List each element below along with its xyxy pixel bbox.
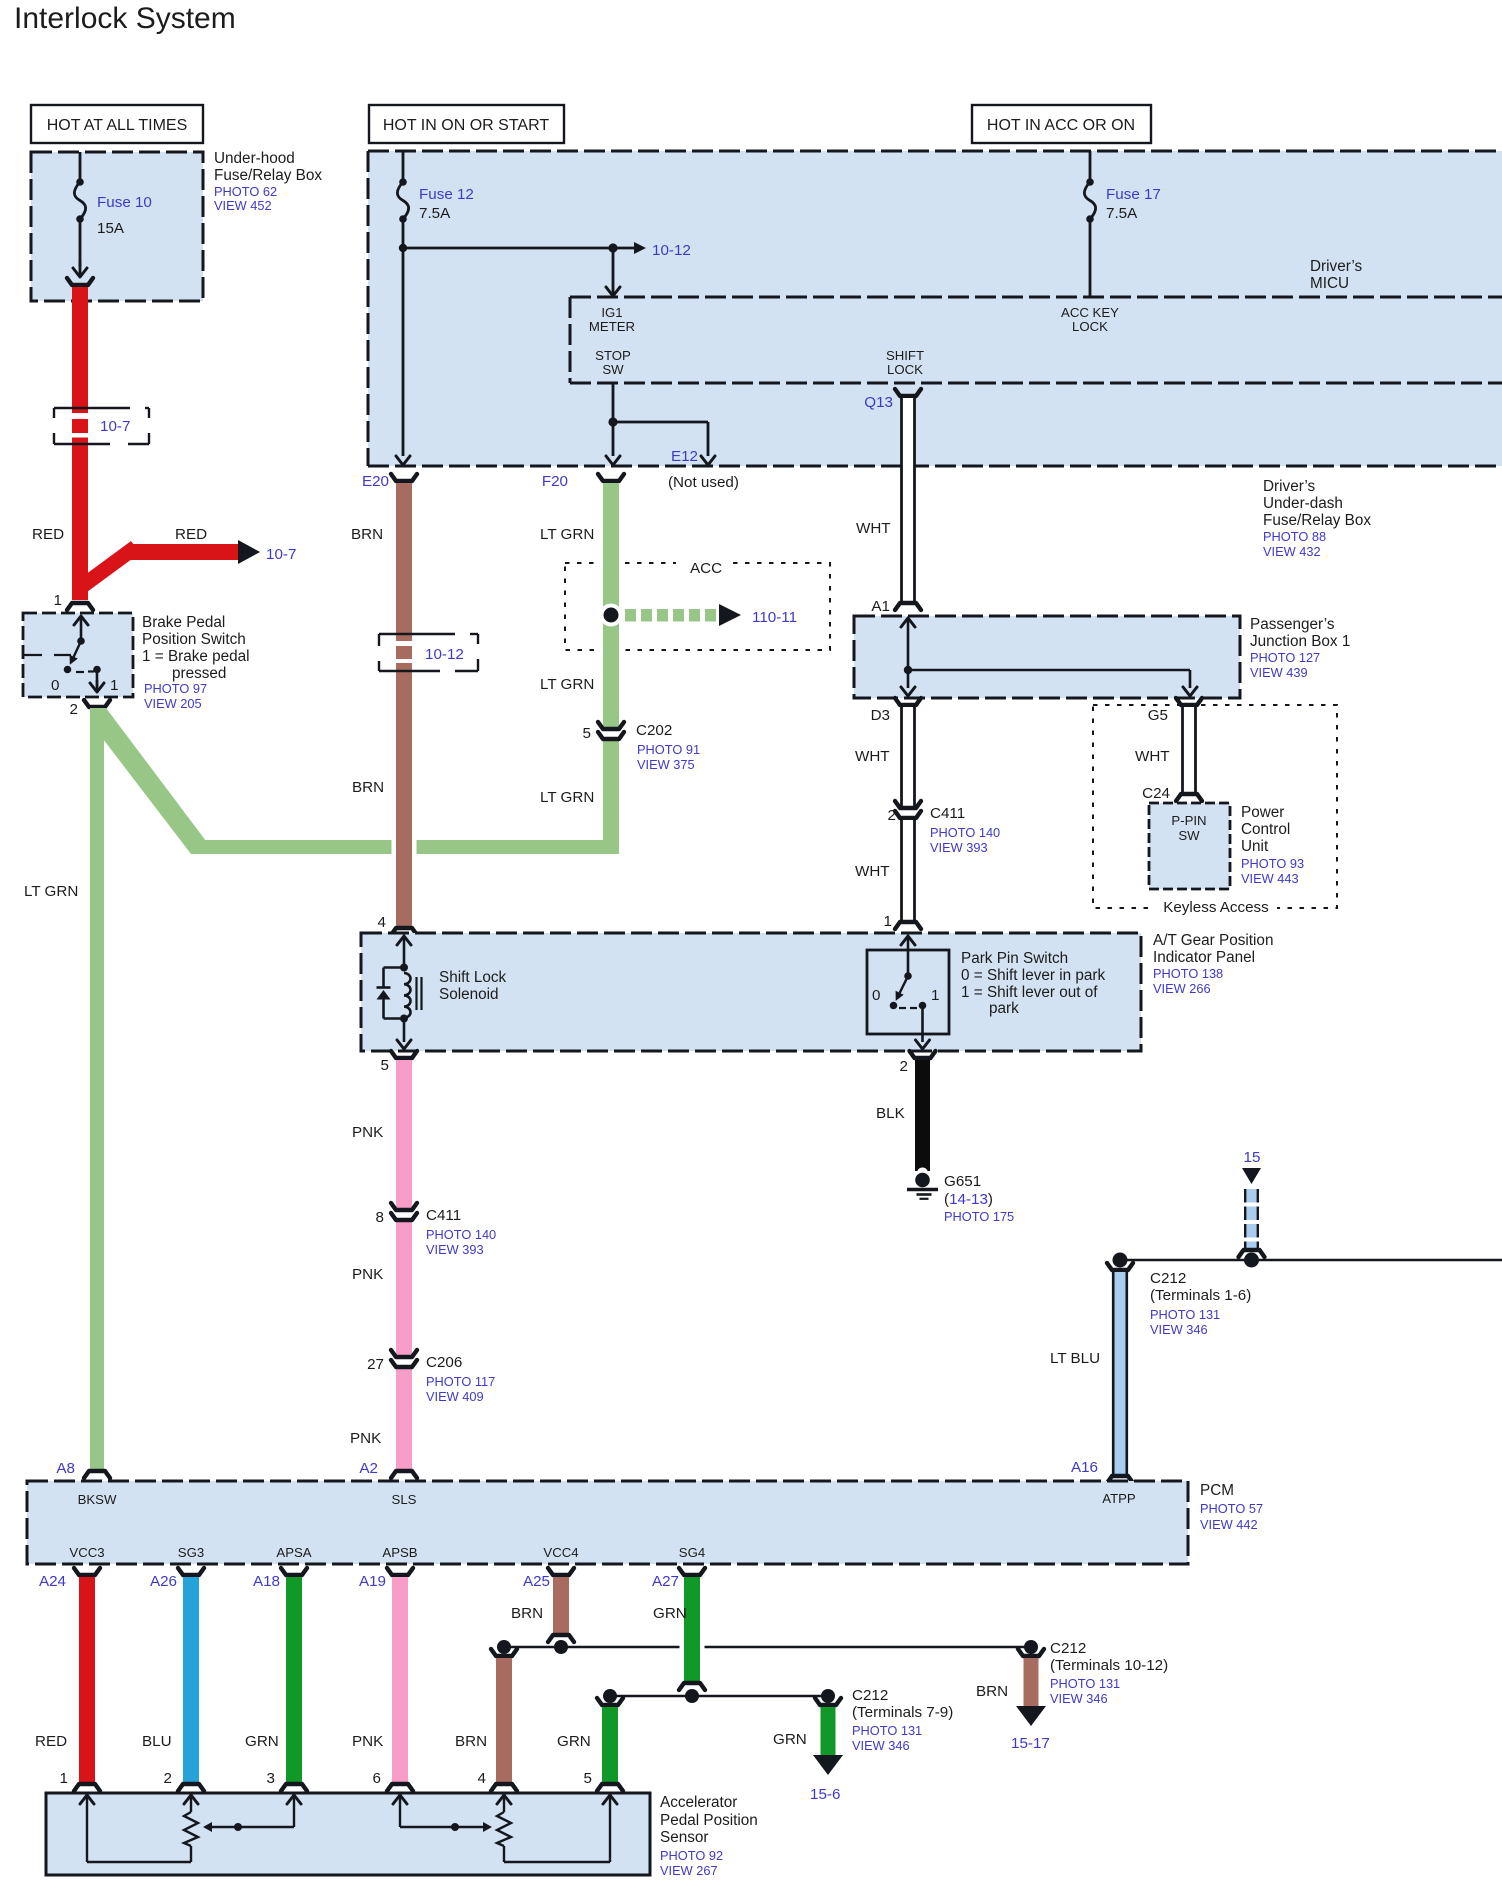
svg-text:HOT IN ON OR START: HOT IN ON OR START: [383, 117, 549, 134]
svg-text:1: 1: [931, 987, 939, 1004]
svg-text:BLK: BLK: [876, 1105, 905, 1122]
svg-text:PHOTO 138: PHOTO 138: [1153, 966, 1223, 981]
svg-text:Fuse/Relay Box: Fuse/Relay Box: [214, 167, 322, 184]
svg-text:VIEW 375: VIEW 375: [637, 757, 695, 772]
wiper APP sensor 2: [400, 1826, 487, 1828]
connector A16: [1107, 1476, 1133, 1483]
svg-text:3: 3: [267, 1770, 275, 1787]
connector C206 pin 27: [391, 1350, 417, 1357]
svg-text:METER: METER: [589, 319, 635, 334]
svg-text:PNK: PNK: [350, 1430, 381, 1447]
svg-text:LT GRN: LT GRN: [540, 789, 594, 806]
connector E20: [391, 474, 417, 481]
svg-text:F20: F20: [542, 473, 568, 490]
svg-text:10-7: 10-7: [100, 418, 130, 435]
svg-text:RED: RED: [175, 526, 207, 543]
svg-text:A26: A26: [150, 1573, 177, 1590]
svg-text:RED: RED: [35, 1733, 67, 1750]
svg-text:A/T Gear Position: A/T Gear Position: [1153, 932, 1273, 949]
svg-text:SW: SW: [1178, 828, 1200, 843]
label box HOT IN ACC OR ON: [972, 105, 1151, 143]
svg-text:VIEW 393: VIEW 393: [930, 840, 988, 855]
svg-text:Keyless Access: Keyless Access: [1163, 899, 1269, 916]
svg-text:E12: E12: [671, 448, 698, 465]
wire GRN to sensor pin 5: [602, 1707, 618, 1782]
svg-text:BRN: BRN: [511, 1605, 543, 1622]
page break marker 10-12: [379, 633, 455, 635]
svg-text:PHOTO 88: PHOTO 88: [1263, 529, 1326, 544]
svg-text:LT GRN: LT GRN: [24, 883, 78, 900]
svg-text:VIEW 346: VIEW 346: [1050, 1691, 1108, 1706]
svg-text:BRN: BRN: [455, 1733, 487, 1750]
svg-text:Driver’s: Driver’s: [1310, 258, 1362, 275]
svg-text:Power: Power: [1241, 804, 1284, 821]
wire LT GRN diagonal from pin 2: [90, 708, 206, 854]
box Passenger's Junction Box 1: [854, 616, 1240, 698]
svg-text:VIEW 452: VIEW 452: [214, 198, 272, 213]
svg-text:Solenoid: Solenoid: [439, 986, 499, 1003]
solenoid Shift Lock Solenoid: [397, 936, 411, 945]
wire branch to E12: [613, 421, 708, 424]
svg-text:VIEW 443: VIEW 443: [1241, 871, 1299, 886]
connector C212 10-12 top: [1018, 1649, 1044, 1656]
svg-text:VIEW 346: VIEW 346: [1150, 1322, 1208, 1337]
connector A26: [178, 1568, 204, 1575]
svg-text:VIEW 267: VIEW 267: [660, 1863, 718, 1878]
node SG4 line left: [603, 1689, 617, 1703]
svg-text:ACC: ACC: [690, 560, 722, 577]
svg-text:BRN: BRN: [976, 1683, 1008, 1700]
svg-text:pressed: pressed: [172, 665, 226, 682]
node SG4 line mid: [685, 1689, 699, 1703]
connector pin 4 solenoid: [391, 928, 417, 935]
connector pin 5 top: [597, 1698, 623, 1705]
svg-text:(Terminals 7-9): (Terminals 7-9): [852, 1704, 953, 1721]
svg-text:LT BLU: LT BLU: [1050, 1350, 1100, 1367]
box ACC branch: [565, 563, 830, 650]
wire WHT Q13 to A1: [901, 398, 916, 601]
svg-text:LOCK: LOCK: [1072, 319, 1108, 334]
wire C212 terminals 1-6 line: [1120, 1259, 1502, 1262]
svg-text:C212: C212: [852, 1687, 888, 1704]
label box HOT AT ALL TIMES: [31, 105, 203, 143]
svg-text:PNK: PNK: [352, 1266, 383, 1283]
svg-text:VIEW 205: VIEW 205: [144, 696, 202, 711]
wire PNK PCM APSB to sensor pin 6: [392, 1577, 408, 1782]
svg-text:PHOTO 92: PHOTO 92: [660, 1848, 723, 1863]
page break marker 10-7: [54, 407, 130, 409]
fuse Fuse 17 7.5A: [1089, 151, 1092, 182]
wire WHT G5 to C24: [1182, 707, 1197, 792]
svg-text:PHOTO 97: PHOTO 97: [144, 681, 207, 696]
svg-text:WHT: WHT: [855, 863, 890, 880]
svg-text:HOT AT ALL TIMES: HOT AT ALL TIMES: [47, 117, 188, 134]
svg-text:WHT: WHT: [1135, 748, 1170, 765]
box Driver's Under-dash Fuse/Relay Box: [368, 151, 1502, 466]
connector C24: [1176, 794, 1202, 801]
svg-text:STOP: STOP: [595, 348, 631, 363]
svg-text:A16: A16: [1071, 1459, 1098, 1476]
resistor APP sensor 1: [184, 1812, 198, 1846]
svg-text:Fuse/Relay Box: Fuse/Relay Box: [1263, 512, 1371, 529]
svg-text:PNK: PNK: [352, 1124, 383, 1141]
connector C212 terminal line top: [1239, 1250, 1265, 1257]
svg-text:PHOTO 140: PHOTO 140: [426, 1227, 496, 1242]
svg-text:BRN: BRN: [352, 779, 384, 796]
svg-text:C212: C212: [1150, 1270, 1186, 1287]
svg-text:D3: D3: [871, 707, 890, 724]
svg-text:BKSW: BKSW: [78, 1492, 117, 1507]
fuse Fuse 10 15A: [79, 152, 82, 182]
wire PNK solenoid to PCM SLS: [396, 1060, 412, 1209]
svg-text:Brake Pedal: Brake Pedal: [142, 614, 225, 631]
svg-text:BLU: BLU: [142, 1733, 172, 1750]
svg-text:PHOTO 140: PHOTO 140: [930, 825, 1000, 840]
svg-text:GRN: GRN: [773, 1731, 807, 1748]
svg-text:PHOTO 91: PHOTO 91: [637, 742, 700, 757]
svg-text:0: 0: [872, 987, 880, 1004]
svg-text:PHOTO 62: PHOTO 62: [214, 184, 277, 199]
svg-text:ACC KEY: ACC KEY: [1061, 305, 1119, 320]
svg-text:Q13: Q13: [864, 394, 893, 411]
svg-text:LT GRN: LT GRN: [540, 676, 594, 693]
connector sensor pin 6: [387, 1784, 413, 1791]
wire LT BLU C212 to PCM ATPP: [1114, 1272, 1126, 1474]
svg-text:Pedal Position: Pedal Position: [660, 1812, 758, 1829]
svg-text:PHOTO 57: PHOTO 57: [1200, 1501, 1263, 1516]
svg-text:Accelerator: Accelerator: [660, 1794, 737, 1811]
box Driver's MICU: [570, 296, 1502, 299]
svg-text:Sensor: Sensor: [660, 1829, 708, 1846]
wire LT GRN brake switch to PCM BKSW: [90, 709, 104, 1469]
wire RED fuse10 to brake switch: [72, 287, 88, 413]
svg-text:PHOTO 127: PHOTO 127: [1250, 650, 1320, 665]
connector A24: [74, 1568, 100, 1575]
svg-text:G5: G5: [1148, 707, 1168, 724]
connector A25 bottom: [548, 1635, 574, 1642]
switch brake pedal contacts: [74, 616, 88, 625]
wire junction box internal: [901, 618, 915, 627]
svg-text:1: 1: [54, 592, 62, 609]
svg-text:G651: G651: [944, 1173, 981, 1190]
wire branch to 10-12: [403, 247, 634, 250]
svg-text:GRN: GRN: [245, 1733, 279, 1750]
svg-text:Junction Box 1: Junction Box 1: [1250, 633, 1350, 650]
connector A19: [387, 1568, 413, 1575]
svg-text:RED: RED: [32, 526, 64, 543]
node C212 line right: [1244, 1253, 1259, 1268]
connector Q13: [895, 389, 921, 396]
node ACC tap junction: [600, 604, 623, 627]
wire dashed LT GRN ACC branch: [625, 609, 636, 622]
connector C202 pin 5: [598, 722, 624, 729]
wire WHT D3 to C411: [901, 707, 916, 806]
wire RED branch to 10-7: [74, 541, 140, 592]
wire BRN to sensor pin 4: [496, 1658, 512, 1782]
connector G5: [1176, 698, 1202, 705]
svg-text:C212: C212: [1050, 1640, 1086, 1657]
svg-text:PCM: PCM: [1200, 1482, 1234, 1499]
wire GRN PCM SG4 stub: [504, 1646, 1031, 1649]
label box HOT IN ON OR START: [369, 105, 564, 143]
svg-text:(Not used): (Not used): [668, 474, 739, 491]
svg-text:HOT IN ACC OR ON: HOT IN ACC OR ON: [987, 117, 1135, 134]
box Brake Pedal Position Switch: [23, 613, 133, 697]
node junction box split: [904, 666, 912, 674]
svg-text:VIEW 393: VIEW 393: [426, 1242, 484, 1257]
svg-text:LT GRN: LT GRN: [540, 526, 594, 543]
connector sensor pin 2: [178, 1784, 204, 1791]
ground G651: [917, 1168, 928, 1179]
wire BLU PCM SG3 to sensor pin 2: [183, 1577, 199, 1782]
wire to IG1 METER pin: [612, 248, 615, 287]
svg-text:15-6: 15-6: [810, 1786, 840, 1803]
svg-text:4: 4: [478, 1770, 486, 1787]
connector C411 pin 2: [895, 801, 921, 808]
svg-text:VIEW 432: VIEW 432: [1263, 544, 1321, 559]
svg-text:A27: A27: [652, 1573, 679, 1590]
svg-text:SW: SW: [602, 362, 624, 377]
svg-text:WHT: WHT: [855, 748, 890, 765]
svg-text:A19: A19: [359, 1573, 386, 1590]
svg-text:C202: C202: [636, 722, 672, 739]
box A/T Gear Position Indicator Panel: [361, 933, 1141, 1051]
wire LT GRN F20 to shift lock solenoid: [599, 560, 624, 655]
svg-text:6: 6: [373, 1770, 381, 1787]
svg-text:15-17: 15-17: [1011, 1735, 1050, 1752]
box P-PIN SW: [1149, 803, 1230, 889]
svg-text:0 = Shift lever in park: 0 = Shift lever in park: [961, 967, 1105, 984]
wire dashed LT BLU from 15: [1246, 1189, 1257, 1203]
arrow to page 110-11: [719, 604, 741, 626]
connector sensor pin 5: [597, 1784, 623, 1791]
wire SG4 line: [610, 1695, 828, 1698]
fuse Fuse 12 7.5A: [402, 151, 405, 182]
svg-text:Under-hood: Under-hood: [214, 150, 295, 167]
svg-text:(14-13): (14-13): [944, 1191, 993, 1208]
svg-text:PHOTO 131: PHOTO 131: [1050, 1676, 1120, 1691]
svg-text:(Terminals 10-12): (Terminals 10-12): [1050, 1657, 1168, 1674]
svg-text:0: 0: [51, 677, 59, 694]
svg-text:IG1: IG1: [601, 305, 622, 320]
svg-text:5: 5: [381, 1057, 389, 1074]
svg-text:C411: C411: [426, 1207, 461, 1224]
svg-text:Fuse 17: Fuse 17: [1106, 186, 1161, 203]
connector A1: [895, 603, 921, 610]
svg-text:PHOTO 131: PHOTO 131: [1150, 1307, 1220, 1322]
svg-text:27: 27: [367, 1356, 384, 1373]
svg-text:2: 2: [70, 701, 78, 718]
svg-text:MICU: MICU: [1310, 275, 1349, 292]
resistor APP sensor 2: [497, 1812, 511, 1846]
svg-text:4: 4: [378, 914, 386, 931]
switch Park Pin Switch: [867, 950, 949, 1034]
arrow RED to page 10-7: [238, 540, 260, 564]
svg-text:5: 5: [583, 725, 591, 742]
svg-text:Position Switch: Position Switch: [142, 631, 246, 648]
svg-text:Shift Lock: Shift Lock: [439, 969, 507, 986]
connector top of LT BLU wire: [1107, 1263, 1133, 1270]
connector sensor pin 3: [281, 1784, 307, 1791]
svg-text:SG3: SG3: [178, 1545, 204, 1560]
node SG4 line right: [821, 1689, 835, 1703]
wire BRN PCM VCC4 stub: [553, 1577, 569, 1633]
svg-text:PHOTO 175: PHOTO 175: [944, 1209, 1014, 1224]
svg-text:VIEW 442: VIEW 442: [1200, 1517, 1258, 1532]
connector top of RED wire: [67, 278, 93, 285]
svg-text:7.5A: 7.5A: [1106, 205, 1138, 222]
node fuse12 branch junction: [399, 244, 407, 252]
connector F20: [598, 474, 624, 481]
arrow to page 10-12: [634, 242, 646, 254]
svg-text:Interlock System: Interlock System: [14, 2, 236, 35]
box Under-hood Fuse/Relay Box: [31, 152, 203, 301]
svg-text:A2: A2: [359, 1460, 378, 1477]
svg-text:8: 8: [376, 1209, 384, 1226]
svg-text:SG4: SG4: [679, 1545, 705, 1560]
svg-text:VIEW 266: VIEW 266: [1153, 981, 1211, 996]
svg-text:15A: 15A: [97, 220, 125, 237]
svg-text:1: 1: [60, 1770, 68, 1787]
connector A25: [548, 1568, 574, 1575]
sensor internal entries: [80, 1795, 94, 1804]
svg-text:1 = Brake pedal: 1 = Brake pedal: [142, 648, 250, 665]
svg-text:E20: E20: [362, 473, 389, 490]
connector sensor pin 1: [74, 1784, 100, 1791]
svg-text:PHOTO 93: PHOTO 93: [1241, 856, 1304, 871]
connector pin 2 park pin switch: [910, 1051, 936, 1058]
svg-text:WHT: WHT: [856, 520, 891, 537]
svg-text:110-11: 110-11: [752, 609, 797, 626]
node C212 line left: [1113, 1253, 1128, 1268]
svg-text:(Terminals 1-6): (Terminals 1-6): [1150, 1287, 1251, 1304]
svg-text:VIEW 346: VIEW 346: [852, 1738, 910, 1753]
svg-text:ATPP: ATPP: [1102, 1491, 1136, 1506]
wire RED PCM VCC3 to sensor pin 1: [79, 1577, 95, 1782]
box Keyless Access: [1093, 705, 1337, 908]
svg-text:Fuse 10: Fuse 10: [97, 194, 152, 211]
wire LT GRN horizontal run: [196, 840, 619, 854]
connector pin 1 park pin switch: [895, 922, 921, 929]
node VCC4 line mid: [554, 1640, 568, 1654]
svg-text:A25: A25: [523, 1573, 550, 1590]
svg-text:2: 2: [888, 807, 896, 824]
svg-text:SLS: SLS: [392, 1492, 417, 1507]
connector pin 2 brake switch: [84, 700, 110, 707]
svg-text:2: 2: [900, 1058, 908, 1075]
connector C212 7-9 top: [815, 1698, 841, 1705]
svg-text:park: park: [989, 1000, 1019, 1017]
connector A27 bottom: [679, 1683, 705, 1690]
svg-text:LOCK: LOCK: [887, 362, 923, 377]
node VCC4 line left: [497, 1640, 511, 1654]
connector pin 5 solenoid: [391, 1051, 417, 1058]
connector A18: [281, 1568, 307, 1575]
svg-text:Under-dash: Under-dash: [1263, 495, 1343, 512]
svg-text:GRN: GRN: [557, 1733, 591, 1750]
svg-text:C24: C24: [1142, 785, 1170, 802]
connector pin 4 top: [491, 1649, 517, 1656]
svg-text:1 = Shift lever out of: 1 = Shift lever out of: [961, 984, 1098, 1001]
svg-text:1: 1: [884, 913, 892, 930]
solenoid core bars: [415, 977, 417, 1010]
node VCC4 line right: [1024, 1640, 1038, 1654]
svg-text:BRN: BRN: [351, 526, 383, 543]
svg-text:C411: C411: [930, 805, 965, 822]
wire GRN C212 terminals 7-9 arrow: [821, 1707, 836, 1755]
svg-text:10-12: 10-12: [425, 646, 464, 663]
svg-text:Control: Control: [1241, 821, 1290, 838]
connector pin 1 brake switch: [67, 603, 93, 610]
svg-text:15: 15: [1244, 1149, 1261, 1166]
svg-text:Indicator Panel: Indicator Panel: [1153, 949, 1255, 966]
wire STOP SW to F20 junction: [612, 383, 615, 456]
box Accelerator Pedal Position Sensor: [46, 1793, 650, 1875]
svg-text:Driver’s: Driver’s: [1263, 478, 1315, 495]
svg-text:A24: A24: [39, 1573, 66, 1590]
svg-text:Unit: Unit: [1241, 838, 1269, 855]
svg-text:PNK: PNK: [352, 1733, 383, 1750]
svg-text:SHIFT: SHIFT: [886, 348, 924, 363]
node IG1 branch junction: [608, 243, 617, 252]
svg-text:5: 5: [584, 1770, 592, 1787]
node STOP SW branch: [608, 417, 617, 426]
connector C411 pin 8: [391, 1203, 417, 1210]
svg-text:10-7: 10-7: [266, 546, 296, 563]
svg-text:VIEW 439: VIEW 439: [1250, 665, 1308, 680]
connector sensor pin 4: [491, 1784, 517, 1791]
diode solenoid clamp: [384, 966, 405, 969]
svg-text:GRN: GRN: [653, 1605, 687, 1622]
svg-text:APSB: APSB: [382, 1545, 417, 1560]
svg-text:PHOTO 131: PHOTO 131: [852, 1723, 922, 1738]
svg-text:APSA: APSA: [276, 1545, 311, 1560]
svg-text:Park Pin Switch: Park Pin Switch: [961, 950, 1068, 967]
svg-text:VCC3: VCC3: [69, 1545, 104, 1560]
svg-text:VCC4: VCC4: [543, 1545, 578, 1560]
svg-text:A8: A8: [56, 1460, 75, 1477]
svg-text:Passenger’s: Passenger’s: [1250, 616, 1335, 633]
svg-text:PHOTO 117: PHOTO 117: [426, 1374, 495, 1389]
connector A8: [84, 1471, 110, 1478]
svg-text:A18: A18: [253, 1573, 280, 1590]
svg-text:1: 1: [110, 677, 118, 694]
svg-text:7.5A: 7.5A: [419, 205, 451, 222]
wire WHT C411 to park pin switch: [901, 820, 916, 920]
wiper APP sensor 1: [208, 1826, 294, 1828]
svg-text:A1: A1: [871, 598, 890, 615]
wire BRN C212 terminals 10-12 arrow: [1024, 1658, 1039, 1706]
svg-text:VIEW 409: VIEW 409: [426, 1389, 484, 1404]
svg-text:C206: C206: [426, 1354, 462, 1371]
connector A2: [391, 1471, 417, 1478]
wire BLK park pin switch to G651: [915, 1060, 930, 1171]
wire BRN E20 to shift lock solenoid pin 4: [392, 834, 417, 860]
svg-text:2: 2: [164, 1770, 172, 1787]
connector A27: [679, 1568, 705, 1575]
wire GRN PCM APSA to sensor pin 3: [286, 1577, 302, 1782]
svg-text:Fuse 12: Fuse 12: [419, 186, 474, 203]
box PCM: [27, 1481, 1188, 1564]
svg-text:P-PIN: P-PIN: [1171, 813, 1206, 828]
svg-text:10-12: 10-12: [652, 242, 691, 259]
connector D3: [895, 698, 921, 705]
